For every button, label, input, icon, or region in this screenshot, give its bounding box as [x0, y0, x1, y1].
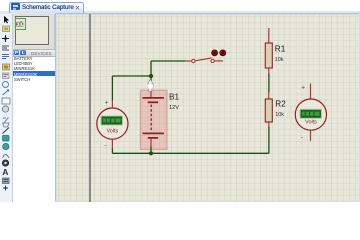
mouse cursor	[148, 79, 154, 91]
2D closed path icon	[2, 159, 8, 165]
resistor R2 bottom pin	[268, 122, 270, 127]
resistor R1 bottom pin	[268, 68, 270, 75]
component mode icon	[3, 26, 10, 32]
wire: top rail horizontal	[112, 75, 151, 77]
overview panel	[13, 14, 55, 49]
node: bottom junction	[149, 151, 153, 155]
wire: bottom rail horizontal	[112, 152, 269, 154]
tab close x	[75, 4, 80, 12]
svg-text:A: A	[2, 167, 8, 177]
battery B1 plate long top	[143, 97, 164, 99]
2D symbol icon	[3, 178, 10, 184]
left voltmeter display	[101, 116, 124, 126]
switch toggle red dot right	[220, 50, 226, 56]
right voltmeter bottom pin	[310, 130, 312, 141]
wire: left voltmeter bottom to bottom rail	[111, 148, 113, 154]
canvas top border	[55, 13, 360, 15]
wire: battery bottom to bottom rail	[150, 146, 152, 153]
devices list	[13, 57, 56, 203]
svg-text:10k: 10k	[275, 112, 284, 118]
canvas background	[55, 13, 360, 202]
right voltmeter top pin	[310, 84, 312, 100]
tab strip lower band	[0, 11, 360, 14]
left voltmeter bottom pin	[111, 139, 113, 148]
canvas left border	[55, 13, 57, 202]
tape recorder icon	[2, 105, 8, 111]
switch left terminal	[192, 59, 195, 62]
terminal mode icon	[3, 81, 9, 87]
overview sheet rect	[15, 16, 50, 45]
subcircuit mode icon	[3, 73, 10, 79]
wire: horizontal to switch	[151, 60, 186, 62]
right voltmeter body	[295, 99, 326, 130]
DEVICES label	[31, 51, 52, 56]
selected device row	[13, 71, 56, 76]
wire label mode icon	[2, 46, 9, 50]
switch toggle red dot left	[212, 50, 218, 56]
L button	[20, 50, 26, 56]
svg-text:R1: R1	[275, 45, 286, 54]
switch SW left pin	[186, 60, 192, 62]
battery B1 bottom pin	[150, 139, 152, 147]
svg-text:+: +	[301, 85, 305, 92]
devices header bar	[13, 49, 57, 57]
P button	[14, 50, 20, 56]
battery B1 plate short bottom	[148, 137, 158, 139]
battery B1 plate short top	[148, 101, 158, 103]
voltage probe icon	[3, 123, 10, 127]
svg-text:10k: 10k	[275, 57, 284, 63]
device pin mode icon	[3, 90, 9, 95]
selection pointer icon	[4, 15, 9, 23]
svg-text:-: -	[104, 142, 106, 149]
tab title	[22, 4, 74, 11]
tab: Schematic Capture	[9, 2, 84, 14]
2D box icon	[3, 135, 10, 141]
overview viewport green box	[15, 18, 26, 30]
bus mode icon	[3, 64, 10, 70]
battery selection highlight box	[140, 90, 167, 149]
svg-text:12V: 12V	[169, 105, 179, 111]
right window edge	[359, 11, 360, 203]
2D arc icon	[3, 154, 10, 158]
battery B1 plate long bottom	[143, 132, 164, 134]
2D line icon	[3, 127, 10, 133]
svg-text:+: +	[105, 99, 109, 106]
svg-text:R2: R2	[275, 100, 286, 109]
left voltmeter body	[97, 108, 128, 139]
svg-text:-: -	[301, 135, 303, 142]
generator mode icon	[3, 117, 9, 124]
left voltmeter top pin	[111, 100, 113, 108]
switch right terminal	[211, 59, 214, 62]
wire: left voltmeter top to top rail corner	[111, 76, 113, 100]
wire: junction up to switch level	[150, 61, 152, 76]
wire: between R1 and R2	[268, 74, 270, 93]
sheet border line	[89, 14, 91, 202]
wire: junction down to battery top pin	[150, 76, 152, 90]
svg-text:Volts: Volts	[305, 120, 317, 126]
2D circle icon	[3, 143, 9, 149]
toolbar icons (svg)	[0, 14, 12, 202]
node: top junction	[149, 74, 153, 78]
svg-text:Volts: Volts	[106, 128, 118, 134]
schematic canvas	[55, 13, 360, 202]
resistor R2 top pin	[268, 92, 270, 99]
switch right pin	[214, 60, 223, 62]
battery B1 top pin	[150, 90, 152, 97]
svg-text:B1: B1	[169, 93, 179, 102]
resistor R1 body	[265, 43, 272, 68]
switch lever	[195, 58, 211, 61]
resistor R1 top pin	[268, 28, 270, 43]
2D marker icon	[3, 185, 8, 190]
graph mode icon	[2, 98, 10, 104]
junction dot mode icon	[2, 35, 9, 42]
text script mode icon	[2, 54, 9, 58]
tab icon	[11, 3, 20, 10]
resistor R2 body	[265, 99, 272, 122]
wire: R2 bottom pin to bottom rail	[268, 127, 270, 154]
right voltmeter display	[300, 109, 323, 119]
battery B1 dashed cell link	[150, 105, 152, 132]
top bar background	[0, 0, 360, 11]
overview mini schematic marks	[15, 18, 26, 30]
left toolbar strip	[0, 14, 13, 203]
